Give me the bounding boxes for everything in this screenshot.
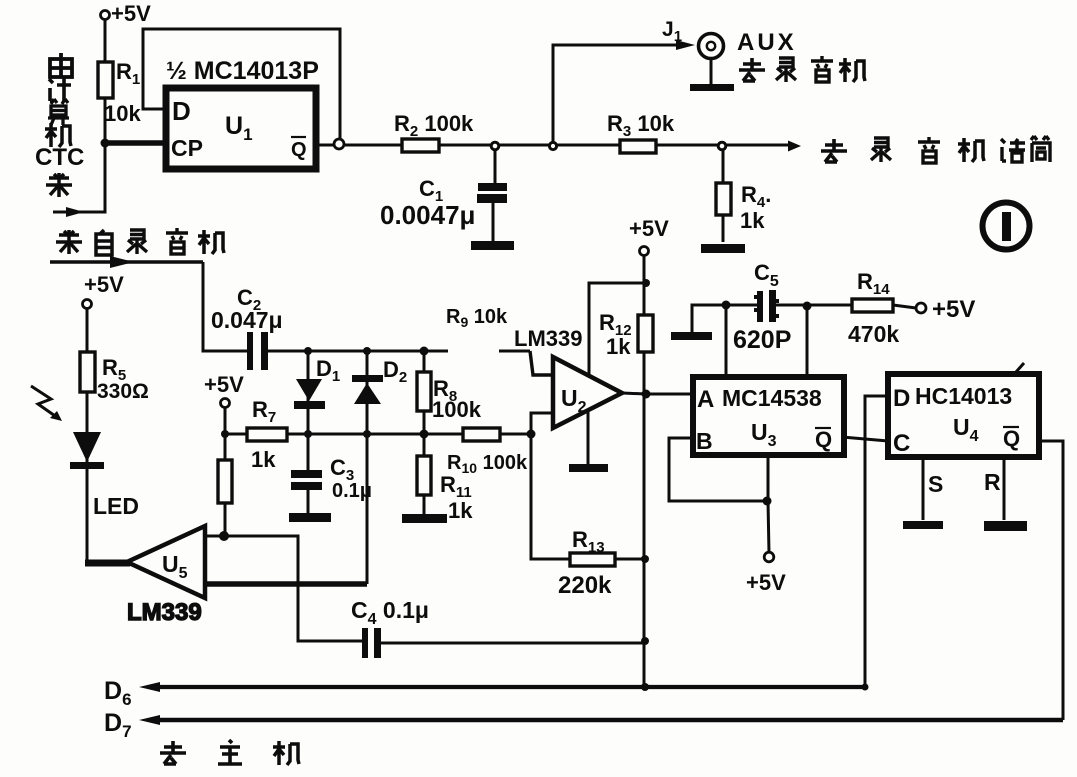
svg-text:J1: J1	[662, 18, 682, 45]
svg-text:D7: D7	[104, 709, 132, 741]
svg-text:R11: R11	[440, 472, 472, 501]
svg-text:R: R	[984, 469, 1001, 495]
svg-text:MC14538: MC14538	[722, 385, 822, 411]
svg-text:R1: R1	[116, 59, 140, 88]
svg-text:S: S	[928, 471, 943, 497]
svg-text:+5V: +5V	[932, 296, 975, 323]
svg-text:220k: 220k	[558, 572, 612, 599]
svg-text:Q: Q	[1003, 426, 1020, 451]
svg-text:+5V: +5V	[84, 272, 124, 297]
svg-text:R3 10k: R3 10k	[607, 111, 675, 140]
svg-text:CTC: CTC	[35, 144, 84, 171]
svg-text:AUX: AUX	[737, 29, 797, 56]
svg-text:330Ω: 330Ω	[97, 380, 149, 403]
svg-text:R7: R7	[252, 397, 276, 426]
svg-text:R10 100k: R10 100k	[447, 452, 528, 476]
svg-text:R9 10k: R9 10k	[446, 306, 508, 330]
svg-text:0.047μ: 0.047μ	[211, 307, 283, 333]
svg-text:100k: 100k	[432, 397, 482, 422]
svg-text:D1: D1	[316, 356, 340, 385]
svg-text:CP: CP	[171, 135, 203, 161]
svg-text:LM339: LM339	[127, 599, 202, 626]
svg-text:Q: Q	[815, 427, 832, 452]
svg-text:Q: Q	[291, 139, 307, 161]
svg-text:A: A	[697, 386, 714, 413]
svg-text:1k: 1k	[251, 447, 276, 472]
svg-text:1k: 1k	[606, 334, 631, 359]
svg-text:C: C	[893, 430, 910, 457]
svg-text:D: D	[893, 385, 910, 412]
svg-text:10k: 10k	[104, 101, 141, 126]
svg-text:LM339: LM339	[514, 326, 582, 351]
svg-text:0.0047μ: 0.0047μ	[380, 200, 475, 230]
svg-text:D2: D2	[383, 357, 407, 386]
svg-text:B: B	[696, 428, 713, 454]
svg-text:+5V: +5V	[111, 1, 151, 26]
svg-text:R4.: R4.	[741, 182, 771, 211]
svg-text:1k: 1k	[740, 208, 765, 233]
svg-text:D6: D6	[104, 677, 132, 709]
svg-text:LED: LED	[93, 493, 139, 519]
svg-text:R2 100k: R2 100k	[394, 111, 474, 140]
svg-text:R13: R13	[572, 527, 605, 556]
svg-text:+5V: +5V	[629, 216, 669, 241]
svg-text:C4 0.1μ: C4 0.1μ	[351, 597, 429, 628]
svg-text:0.1μ: 0.1μ	[332, 480, 372, 502]
svg-text:½ MC14013P: ½ MC14013P	[166, 57, 319, 85]
svg-text:620P: 620P	[733, 326, 791, 354]
svg-text:+5V: +5V	[746, 570, 786, 595]
svg-text:HC14013: HC14013	[915, 383, 1012, 409]
svg-text:470k: 470k	[848, 321, 899, 347]
svg-text:1k: 1k	[448, 498, 473, 523]
svg-text:R14: R14	[857, 269, 890, 298]
svg-text:C5: C5	[754, 260, 779, 290]
svg-text:D: D	[172, 96, 191, 126]
svg-text:+5V: +5V	[204, 372, 244, 397]
